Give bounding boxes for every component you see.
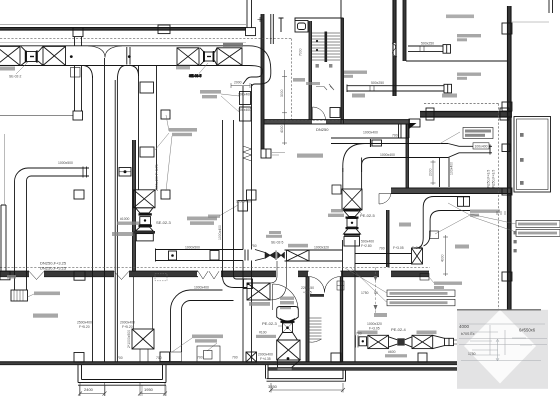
wire pipe marks xyxy=(316,84,334,90)
wall fill top exterior xyxy=(0,28,246,30)
wall fill right main xyxy=(508,6,512,310)
label plenum box xyxy=(176,66,190,70)
fan PE-02-5 X-box xyxy=(342,189,362,210)
label 1000x320 F305 2line xyxy=(367,322,382,331)
fan SE-02-3 base xyxy=(134,231,155,234)
wall fill stair left rail xyxy=(309,21,312,120)
wire leaders to right callouts xyxy=(470,214,516,232)
silencer X-box chiller xyxy=(412,248,423,264)
svg-text:4000: 4000 xyxy=(441,254,445,262)
door arc room xyxy=(313,107,326,120)
grille box top xyxy=(161,110,170,119)
label silencer 2m xyxy=(288,244,308,248)
duct taper transition xyxy=(448,144,459,158)
dim bracket 3550 xyxy=(269,383,345,393)
svg-text:1000x400: 1000x400 xyxy=(194,286,209,290)
wire leaders SB grille xyxy=(221,94,239,112)
duct taper run end xyxy=(433,335,445,348)
fan PE-02-5 motor box xyxy=(344,237,360,247)
duct wye branch down xyxy=(84,66,125,81)
damper box on riser A xyxy=(238,201,248,212)
duct stub above wall xyxy=(247,0,252,28)
svg-text:700: 700 xyxy=(156,356,162,360)
duct gas room supply xyxy=(347,85,444,93)
svg-text:PE-02-4: PE-02-4 xyxy=(391,327,406,332)
svg-text:F+5.20: F+5.20 xyxy=(79,325,90,329)
wall chiller mid b xyxy=(391,193,512,195)
silencer X-box T3 xyxy=(177,48,199,66)
svg-text:#1000: #1000 xyxy=(120,217,130,221)
left edge duct rect xyxy=(1,205,6,271)
svg-text:700: 700 xyxy=(356,332,362,336)
duct riser drop below run xyxy=(75,66,82,112)
wall chiller room top a xyxy=(420,111,512,113)
svg-text:PE-02-5: PE-02-5 xyxy=(360,213,375,218)
flexible connector with flanges xyxy=(21,46,43,65)
duct small to control room xyxy=(459,145,492,155)
silencer X-box run1 xyxy=(368,335,389,348)
label room top right xyxy=(446,15,474,19)
damper on riser drop xyxy=(71,68,81,78)
wire leader riser labels xyxy=(219,205,238,216)
corridor wall line b xyxy=(263,14,265,149)
stair room right wall b xyxy=(343,18,345,124)
damper box on chiller riser xyxy=(430,231,439,239)
wall right main b xyxy=(510,6,512,310)
svg-text:2000x400: 2000x400 xyxy=(120,321,135,325)
svg-text:1000x400: 1000x400 xyxy=(363,131,378,135)
svg-text:F+3.05: F+3.05 xyxy=(393,246,404,250)
wall top right corner stub xyxy=(511,0,553,22)
label duct size left xyxy=(208,215,220,218)
label 2500x400 2line xyxy=(77,321,92,330)
wire leader PE-02-3 xyxy=(278,325,282,327)
riser B line a xyxy=(222,120,224,276)
label SB1000x1000 mid 2line xyxy=(169,128,197,136)
svg-text:3550: 3550 xyxy=(268,384,278,389)
label hash100 2line xyxy=(256,331,276,339)
node wall box B3 xyxy=(246,28,256,36)
label room gas xyxy=(352,94,365,98)
damper box with dot xyxy=(359,337,367,346)
dim bracket 1950 xyxy=(138,383,167,396)
label box 100x400 xyxy=(473,143,489,149)
wall fill x306 xyxy=(306,277,309,362)
svg-text:2500x400 F+3.75: 2500x400 F+3.75 xyxy=(155,164,159,191)
duct elbow PE-02-5 down xyxy=(343,144,371,173)
duct wye turning vanes xyxy=(88,46,122,58)
silencer X-box S2 xyxy=(247,283,270,300)
duct center-left vertical a xyxy=(92,76,94,362)
wall fill x133 xyxy=(133,140,136,271)
fan SE-02-3 cone upper xyxy=(136,208,154,213)
duct left elbow horizontal bottom xyxy=(27,176,90,181)
wall rooms bottom band a xyxy=(264,119,410,121)
door arc mid2 xyxy=(273,284,299,310)
wall segment vertical x133 xyxy=(133,140,136,271)
end box small duct xyxy=(502,144,510,152)
svg-text:2000: 2000 xyxy=(429,168,433,176)
duct SE-02-3 vertical a xyxy=(138,66,140,190)
riser B elbow to east xyxy=(223,276,248,288)
label hash600 F335 2line xyxy=(385,350,407,357)
fan PE-02-3 base dark xyxy=(278,368,292,372)
wall below band x341 xyxy=(340,277,342,362)
wire leader grille left xyxy=(28,294,35,297)
riser A duct left line xyxy=(242,86,244,250)
stair arrows dots xyxy=(316,40,318,51)
label box callout 2 xyxy=(387,299,455,306)
svg-text:SE-02-5: SE-02-5 xyxy=(271,241,284,245)
wall control room left b xyxy=(388,210,390,267)
svg-text:2*1000x500: 2*1000x500 xyxy=(127,330,131,348)
duct riser to wall box B1 xyxy=(75,37,82,46)
flexible connector SE-03-5 xyxy=(200,48,217,66)
dim line right of riser xyxy=(282,70,287,145)
label return duct chiller 2line xyxy=(463,128,493,139)
wire leaders to 700x400 label xyxy=(435,203,470,234)
fan PE-02-5 cone upper xyxy=(344,211,360,217)
duct SE-02-3 vertical b xyxy=(156,66,158,190)
duct thin drop connection xyxy=(331,138,409,144)
svg-text:F+5.20: F+5.20 xyxy=(122,325,133,329)
wall fill corridor vertical xyxy=(261,14,264,149)
duct drop risers at wall xyxy=(399,124,410,138)
column box wall b1 xyxy=(74,353,84,363)
wall chiller mid a xyxy=(391,187,512,189)
wall end cap box xyxy=(261,149,271,158)
fan bowtie PE-02-4 xyxy=(389,337,413,347)
label hash1000 2line topright-left xyxy=(117,217,139,225)
end grille box run xyxy=(445,338,454,345)
stair left rail b xyxy=(311,21,313,120)
wall fill pump room b xyxy=(403,0,406,61)
room wall small left b xyxy=(308,277,310,362)
small box hanger xyxy=(171,352,182,362)
svg-text:1000x500: 1000x500 xyxy=(185,246,200,250)
svg-text:#600: #600 xyxy=(388,350,396,354)
duct D-mid left flange xyxy=(155,249,157,262)
wire leaders to callouts xyxy=(345,268,387,303)
grille box on riser A no.3 xyxy=(247,190,257,200)
svg-text:220x150: 220x150 xyxy=(301,286,314,290)
grille box chiller lower xyxy=(420,274,429,281)
bay1 recess xyxy=(78,365,166,386)
silencer X-box T2 xyxy=(43,46,66,65)
label elec room mid xyxy=(112,232,133,236)
svg-text:#100: #100 xyxy=(259,331,267,335)
wire leaders mid grilles xyxy=(155,115,172,191)
duct chiller horizontal xyxy=(434,197,470,211)
duct left vertical b xyxy=(26,181,28,291)
wall box right mid xyxy=(502,102,512,111)
label silencer S2 xyxy=(249,302,270,306)
bay2 recess xyxy=(267,370,346,381)
stairs bottom small xyxy=(310,318,322,342)
wall main band upper xyxy=(0,270,429,272)
wire leader chiller label xyxy=(440,132,460,144)
svg-text:DN250,F+3.5: DN250,F+3.5 xyxy=(487,170,491,190)
svg-text:750: 750 xyxy=(251,244,257,248)
silencer X-box run2 xyxy=(412,335,433,348)
svg-text:DN250: DN250 xyxy=(316,127,329,132)
X-box grille bottom left xyxy=(132,329,154,349)
damper with actuator on wall xyxy=(119,168,131,177)
svg-text:2500x400: 2500x400 xyxy=(77,321,92,325)
duct end flanges xyxy=(83,167,87,178)
door V mid xyxy=(198,271,219,279)
column box on wall left xyxy=(426,108,434,120)
wall box band b xyxy=(74,271,85,280)
svg-text:1000x400: 1000x400 xyxy=(380,153,395,157)
duct jog to riser A xyxy=(243,70,271,86)
label chiller room name xyxy=(455,245,469,249)
duct branch left from riser B top xyxy=(190,290,234,301)
label return 400x400 gas 2line xyxy=(344,71,367,78)
label silencer 7m right xyxy=(417,331,437,335)
corridor duct stub b xyxy=(272,14,274,44)
riser PE-02-5 line a xyxy=(342,240,344,362)
stair left rail a xyxy=(308,21,310,120)
dim 4000 vertical chiller xyxy=(443,235,448,276)
node wall box B2 xyxy=(158,25,170,34)
label heat room xyxy=(374,313,387,317)
wall box right of band xyxy=(409,119,420,127)
wire thin line under dashed xyxy=(0,42,246,44)
grille box low xyxy=(161,190,170,199)
duct run right of riser b xyxy=(355,263,412,265)
wall fill bottom upper xyxy=(0,362,457,364)
duct elbow turning down xyxy=(249,46,271,70)
bowtie damper D-mid xyxy=(265,251,285,261)
label hanger mark left xyxy=(7,275,16,279)
svg-text:1000x320: 1000x320 xyxy=(367,322,382,326)
svg-text:4000: 4000 xyxy=(280,125,284,133)
label box callout right 2 xyxy=(516,230,560,237)
label fan SE-02-2 xyxy=(0,67,22,79)
svg-text:1000x400: 1000x400 xyxy=(218,225,222,240)
grille box mid xyxy=(140,147,154,157)
riser B line b xyxy=(233,120,235,276)
stair room right wall a xyxy=(340,18,342,124)
svg-text:100x400: 100x400 xyxy=(238,108,251,112)
damper on thin duct xyxy=(371,139,382,147)
label return 700x400 top xyxy=(470,210,500,217)
dashed room line horizontal xyxy=(267,119,345,121)
label elec room center xyxy=(297,154,323,158)
svg-text:500x250: 500x250 xyxy=(371,81,384,85)
duct D-mid top xyxy=(155,249,243,251)
svg-text:1950: 1950 xyxy=(144,387,154,392)
svg-text:PE-02-3: PE-02-3 xyxy=(262,321,277,326)
column box on wall right xyxy=(500,108,509,120)
wire ticks label xyxy=(497,211,505,215)
riser A lower segment xyxy=(243,261,252,362)
label shaft chars lower xyxy=(514,231,517,252)
floor structure small room xyxy=(197,346,220,362)
label return air pump 2line xyxy=(457,34,481,41)
duct chiller elbow lower xyxy=(416,234,430,248)
damper D1 xyxy=(127,47,139,76)
wall fill x406 xyxy=(406,124,409,188)
dashed drain vertical with arrows xyxy=(374,267,378,313)
svg-text:+3.05: +3.05 xyxy=(303,291,312,295)
room wall gas room left top xyxy=(340,0,342,18)
label 220x150 2line xyxy=(301,286,324,297)
label silencer 10m xyxy=(223,43,243,47)
duct run right of riser a xyxy=(355,253,412,255)
svg-text:500x400: 500x400 xyxy=(361,240,374,244)
stair shaft box xyxy=(295,21,308,33)
room wall small left a xyxy=(305,277,307,362)
fan PE-02-3 inlet box xyxy=(283,323,293,333)
wire stub to watermark xyxy=(454,340,460,344)
wall vertical pump room d xyxy=(405,0,407,61)
label return 700x700 low 2line xyxy=(434,282,462,290)
wall top exterior inner line xyxy=(0,29,246,31)
duct branch down chiller xyxy=(440,158,450,188)
grille end left duct xyxy=(11,290,28,301)
svg-text:1000x500: 1000x500 xyxy=(58,161,73,165)
node fire damper dot right xyxy=(128,55,131,58)
duct branch vertical b xyxy=(181,310,183,353)
wall box right low xyxy=(502,188,512,195)
wall main band lower xyxy=(0,276,429,278)
svg-text:100x400: 100x400 xyxy=(450,162,454,175)
duct D-mid bottom xyxy=(155,260,243,262)
svg-text:500x250: 500x250 xyxy=(421,42,434,46)
flex break on riser A xyxy=(243,146,252,161)
dashed chiller top xyxy=(424,103,499,105)
watermark grey panel xyxy=(457,310,548,389)
corridor duct stub a xyxy=(270,14,272,44)
wall fill chiller top xyxy=(420,112,512,117)
duct elbow branch down xyxy=(171,290,191,310)
column box wall b3 xyxy=(418,353,427,362)
label room pump xyxy=(442,94,457,98)
duct run to silencer left a xyxy=(285,249,343,251)
svg-text:2000: 2000 xyxy=(234,81,242,85)
duct stub below X-box xyxy=(140,349,148,362)
label SB grille 2-line xyxy=(200,90,221,98)
svg-text:3000: 3000 xyxy=(280,89,284,97)
label SB1000x400 left xyxy=(34,292,60,296)
svg-text:700: 700 xyxy=(379,247,385,251)
wire leader return low xyxy=(429,277,434,283)
label elec room lower xyxy=(33,314,58,318)
column box wall b2 xyxy=(331,353,341,362)
label SB1000x1000 upper 2line xyxy=(187,217,217,225)
duct main supply run top xyxy=(0,45,249,47)
duct run to silencer left b xyxy=(285,260,343,262)
svg-text:6#550x6: 6#550x6 xyxy=(519,328,536,333)
wall step down x266 xyxy=(266,365,269,379)
wall box right top xyxy=(502,23,512,34)
fan PE-02-5 cone lower xyxy=(344,228,361,235)
wall fill rooms band xyxy=(264,120,312,124)
damper on D-mid xyxy=(169,251,177,260)
damper box left of fan xyxy=(332,185,341,194)
svg-text:2000x400: 2000x400 xyxy=(258,353,273,357)
svg-text:F+4.35: F+4.35 xyxy=(260,357,271,361)
svg-text:F+3.05: F+3.05 xyxy=(369,327,380,331)
door arc mid3 xyxy=(309,277,341,293)
duct run PE-02-4 flanges xyxy=(356,335,359,347)
grille box on riser A no.1 xyxy=(240,92,251,105)
room elevator shaft rect xyxy=(514,117,551,193)
label silencer 7m left xyxy=(358,331,378,335)
grille end branch xyxy=(160,352,170,362)
svg-text:7000: 7000 xyxy=(299,48,303,56)
small box pair right of room xyxy=(337,281,344,290)
wall fill x341 low xyxy=(340,277,342,362)
svg-text:SE-02-2: SE-02-2 xyxy=(9,75,22,79)
fan PE-02-5 flange dark xyxy=(344,209,361,211)
label box callout 1 xyxy=(387,290,455,297)
svg-text:SE-03-5: SE-03-5 xyxy=(189,74,202,78)
fan PE-02-5 flex box xyxy=(346,217,359,230)
wall top exterior upper line xyxy=(0,24,246,26)
label 500x400 F280 xyxy=(361,240,374,249)
wall x406 vertical xyxy=(406,124,409,188)
duct pump room supply xyxy=(408,46,443,51)
duct S-bend up from S2 xyxy=(270,261,287,300)
door V left2 xyxy=(114,271,129,279)
fan box SE-02-2 (X-box) xyxy=(0,46,20,65)
wall right main a xyxy=(507,6,509,310)
label return air gas 2line xyxy=(457,73,481,80)
label up down xyxy=(316,64,333,68)
wall control room left a xyxy=(386,210,388,267)
duct left vertical a xyxy=(14,182,16,291)
wall break wave xyxy=(392,43,397,57)
wire leader to SE-02-2 xyxy=(16,62,28,74)
grille on D-mid xyxy=(210,251,219,261)
fan PE-02-3 big X-box xyxy=(277,340,300,360)
dim 2000 chiller xyxy=(431,160,436,185)
fan SE-02-3 flex box xyxy=(139,213,152,227)
label hash600 2line xyxy=(328,209,344,217)
node elevation marker xyxy=(258,17,263,22)
label box callout right 1 xyxy=(516,221,560,228)
node wall box B1 xyxy=(73,28,83,37)
duct chiller S-riser vertical xyxy=(423,208,430,239)
wire dim extension lines xyxy=(80,386,167,397)
stair center rail dark xyxy=(325,32,328,63)
svg-text:4000: 4000 xyxy=(459,324,470,329)
wall vertical pump room c xyxy=(402,0,404,61)
fan PE-02-3 inlet flange xyxy=(281,321,295,323)
riser A duct right line xyxy=(251,84,253,250)
svg-text:F+2.80: F+2.80 xyxy=(361,244,372,248)
duct center-left vertical b xyxy=(104,58,106,362)
grille box on duct left side xyxy=(74,190,84,199)
duct taper D-mid xyxy=(245,250,265,261)
riser PE-02-5 line b xyxy=(354,240,356,362)
wire ceiling line left xyxy=(0,115,73,117)
fan PE-02-5 base flange xyxy=(344,234,360,236)
svg-text:1750: 1750 xyxy=(468,352,476,356)
svg-text:100x400: 100x400 xyxy=(238,93,251,97)
wall vertical pump room b xyxy=(395,0,397,96)
wall fill chiller mid xyxy=(391,188,512,193)
node box end of ceiling line xyxy=(73,111,83,120)
fan PE-02-3 outlet cone xyxy=(278,360,301,368)
node section marker xyxy=(279,18,284,32)
wire left thin line xyxy=(4,134,6,205)
grille end box gas duct xyxy=(444,84,452,93)
door arc chiller xyxy=(379,194,391,205)
